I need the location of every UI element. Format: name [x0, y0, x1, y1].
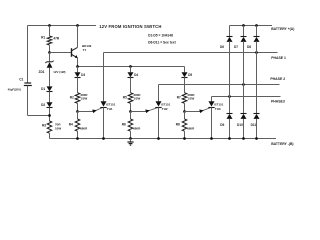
thyristor TH1 (BT151)	[100, 53, 115, 139]
resistor R5	[123, 93, 142, 104]
wire D3 to R2	[77, 77, 79, 92]
svg-text:D5: D5	[188, 73, 192, 77]
label PHASE 2	[270, 77, 285, 81]
svg-text:1/2W: 1/2W	[134, 97, 141, 101]
wire gate lead TH1	[78, 108, 103, 113]
svg-text:680R: 680R	[133, 126, 141, 130]
note diode types line 1	[148, 34, 173, 38]
svg-text:ZD1: ZD1	[39, 70, 45, 74]
resistor R1	[41, 26, 60, 53]
wire ZD1 to D1	[49, 68, 51, 87]
svg-text:1/2W: 1/2W	[188, 97, 195, 101]
diode D3	[75, 72, 86, 77]
label BATTERY +(A)	[271, 27, 294, 31]
wire D4 to R5	[130, 77, 132, 92]
svg-text:D2: D2	[41, 103, 45, 107]
label PHASE 1	[271, 56, 286, 60]
wire D6 cathode stub	[229, 26, 231, 37]
node bottom rail junction x=211.5	[210, 137, 213, 140]
wire D6 anode to phase	[229, 41, 231, 96]
svg-text:R8: R8	[176, 123, 180, 127]
node emitter junction	[76, 65, 79, 68]
node bottom rail junction x=158.5	[157, 137, 160, 140]
svg-text:10W: 10W	[55, 126, 61, 130]
diode D11	[251, 114, 260, 128]
svg-text:D8: D8	[247, 45, 251, 49]
diode D2	[41, 102, 52, 107]
wire phase 3 line	[212, 96, 281, 98]
svg-text:BATTERY -(B): BATTERY -(B)	[271, 142, 293, 146]
svg-text:D6: D6	[220, 45, 224, 49]
wire battery negative rail	[50, 138, 277, 140]
node phase 3 tap	[228, 95, 231, 98]
node bottom rail junction x=229.5	[228, 137, 231, 140]
svg-text:R3: R3	[42, 124, 46, 128]
node phase 1 tap	[255, 51, 258, 54]
node bottom rail junction x=256.5	[255, 137, 258, 140]
node bottom rail junction x=77.5	[76, 137, 79, 140]
resistor R3	[42, 121, 61, 139]
svg-text:40µF(25V): 40µF(25V)	[8, 87, 21, 91]
svg-text:PHASE 2: PHASE 2	[270, 77, 285, 81]
wire R2 to gate node	[77, 103, 79, 111]
node bottom rail junction x=184.5	[183, 137, 186, 140]
diode D10	[237, 114, 247, 128]
zener ZD1	[39, 61, 66, 74]
node bottom rail junction x=103.5	[102, 137, 105, 140]
node bottom rail junction x=243.5	[242, 137, 245, 140]
svg-text:BATTERY +(A): BATTERY +(A)	[271, 27, 294, 31]
wire C1 to lower node	[28, 86, 50, 116]
node D7 top junction	[242, 24, 245, 27]
svg-text:D3: D3	[81, 73, 85, 77]
svg-text:D10: D10	[237, 123, 243, 127]
svg-text:T1: T1	[83, 48, 87, 52]
wire battery positive rail	[230, 25, 273, 27]
wire D7 cathode stub	[243, 26, 245, 37]
svg-text:R6: R6	[122, 123, 126, 127]
svg-text:TH1: TH1	[107, 107, 113, 111]
wire base node to T1	[50, 52, 72, 54]
wire phase tap to D10	[243, 85, 245, 114]
diode D5	[182, 72, 193, 77]
svg-text:680R: 680R	[80, 126, 88, 130]
label BATTERY -(B)	[271, 142, 293, 146]
svg-text:D1: D1	[41, 87, 45, 91]
wire phase tap to D11	[256, 53, 258, 114]
svg-text:TH2: TH2	[162, 107, 168, 111]
svg-text:12V FROM IGNITION SWITCH: 12V FROM IGNITION SWITCH	[99, 24, 161, 29]
svg-text:R7: R7	[177, 95, 181, 99]
note diode types line 2	[148, 40, 176, 44]
wire D8 anode to phase	[256, 41, 258, 52]
node R1 top junction	[48, 24, 51, 27]
svg-text:D7: D7	[234, 45, 238, 49]
svg-text:12V (1W): 12V (1W)	[53, 70, 65, 74]
resistor R7	[177, 93, 196, 104]
wire node to ZD1	[49, 53, 51, 62]
resistor R2	[70, 93, 89, 104]
wire D8 cathode stub	[256, 26, 258, 37]
resistor R4	[69, 112, 88, 139]
wire phase 1 line	[104, 52, 278, 54]
wire gate lead TH2	[131, 108, 158, 113]
wire 12V supply rail	[28, 25, 97, 27]
wire R5 to gate node	[130, 103, 132, 111]
wire D11 anode to rail	[256, 119, 258, 139]
node D8 top junction	[255, 24, 258, 27]
svg-text:BT151: BT151	[106, 103, 115, 107]
svg-text:R1: R1	[41, 36, 45, 40]
transistor T1	[72, 26, 92, 67]
wire D5 to R7	[184, 77, 186, 92]
svg-text:1/2W: 1/2W	[81, 97, 88, 101]
node gate node 1	[76, 110, 79, 113]
node phase 2 tap	[242, 83, 245, 86]
svg-text:BT151: BT151	[161, 103, 170, 107]
svg-text:D9: D9	[220, 123, 224, 127]
svg-text:TH3: TH3	[215, 107, 221, 111]
svg-text:R5: R5	[123, 95, 127, 99]
wire R7 to gate node	[184, 103, 186, 111]
wire rail to D5	[184, 67, 186, 73]
wire rail to D3	[77, 67, 79, 73]
wire gate lead TH3	[185, 108, 211, 113]
svg-text:C1: C1	[19, 78, 23, 82]
wire D7 anode to phase	[243, 41, 245, 84]
svg-text:D4: D4	[134, 73, 138, 77]
node gate node 3	[183, 110, 186, 113]
wire emitter rail	[78, 66, 185, 68]
svg-text:PHASE3: PHASE3	[271, 99, 285, 103]
node T1 collector junction	[76, 24, 79, 27]
wire phase 2 line	[159, 84, 280, 86]
svg-text:47R: 47R	[53, 36, 60, 40]
wire D10 anode to rail	[243, 119, 245, 139]
node T1 base node	[48, 51, 51, 54]
thyristor TH2 (BT151)	[155, 85, 170, 139]
svg-text:D11: D11	[251, 123, 257, 127]
diode D1	[41, 86, 52, 91]
node gate node 2	[129, 110, 132, 113]
label PHASE3	[271, 99, 285, 103]
wire D1 to D2	[49, 92, 51, 103]
wire D9 anode to rail	[229, 119, 231, 139]
svg-text:D6-D11 = See text: D6-D11 = See text	[148, 40, 176, 44]
svg-text:BT151: BT151	[214, 103, 223, 107]
wire left rail	[27, 26, 29, 83]
thyristor TH3 (BT151)	[208, 97, 223, 139]
resistor R8	[176, 112, 195, 139]
diode D6	[220, 37, 233, 49]
svg-text:PHASE 1: PHASE 1	[271, 56, 286, 60]
diode D9	[220, 114, 232, 128]
ground	[127, 139, 133, 146]
capacitor C1	[8, 78, 32, 92]
node C1/R3 junction	[48, 114, 51, 117]
diode D7	[234, 37, 247, 49]
diode D8	[247, 37, 260, 49]
svg-text:R2: R2	[70, 95, 74, 99]
diode D4	[128, 72, 139, 77]
node D4 junction	[129, 65, 132, 68]
svg-text:680R: 680R	[187, 126, 195, 130]
node bottom rail junction x=130.5	[129, 137, 132, 140]
label 12V FROM IGNITION SWITCH	[99, 24, 161, 29]
wire D2 to node	[49, 107, 51, 121]
svg-text:R4: R4	[69, 123, 73, 127]
svg-text:D1-D5 = 1N4148: D1-D5 = 1N4148	[148, 34, 173, 38]
resistor R6	[122, 112, 141, 139]
wire rail to D4	[130, 67, 132, 73]
wire phase tap to D9	[229, 97, 231, 114]
